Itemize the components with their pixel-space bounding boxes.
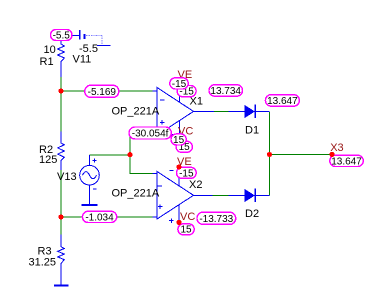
ref label R3 (38, 246, 52, 258)
bias bubble 15 at X2 VC (178, 224, 194, 236)
ref label R1 (40, 56, 54, 68)
bias bubble -15 at X2 VE (177, 167, 197, 179)
value label 125 (39, 154, 57, 166)
svg-text:10: 10 (44, 44, 56, 56)
ref label D1 (245, 125, 259, 137)
value label 10 (44, 44, 56, 56)
svg-text:-1.034: -1.034 (85, 212, 114, 223)
diode D1 (229, 105, 270, 118)
bias bubble 13.647 at D1 (265, 95, 299, 107)
battery V11 (72, 30, 111, 46)
wire X2 output segment (212, 195, 228, 197)
bias bubble -15 lower at X1 VE (177, 86, 196, 98)
resistor R3 (58, 234, 65, 285)
junction node B (58, 214, 63, 219)
part label OP_221A of X1 (112, 106, 160, 118)
svg-text:R1: R1 (40, 56, 54, 68)
svg-text:X2: X2 (189, 179, 202, 191)
svg-text:D2: D2 (245, 208, 259, 220)
resistor R1 (58, 40, 65, 77)
bias bubble 15 lower at X1 VC (176, 141, 192, 153)
wire node D to output X3 (270, 154, 333, 156)
bias bubble -30.054f (129, 127, 171, 140)
svg-text:31.25: 31.25 (29, 257, 57, 269)
wire node B to R3 (60, 217, 62, 234)
power net VE at X2 (177, 156, 192, 168)
ref label D2 (245, 208, 259, 220)
svg-text:13.734: 13.734 (210, 86, 241, 97)
junction X2 VE pin (176, 164, 181, 169)
wire node B to X2 non-inverting input (61, 216, 153, 218)
svg-text:OP_221A: OP_221A (112, 106, 160, 118)
wire node C to X2 inverting input (130, 155, 153, 174)
svg-text:D1: D1 (245, 125, 259, 137)
power net VE at X1 (178, 69, 193, 81)
svg-text:-5.5: -5.5 (53, 31, 71, 42)
svg-text:13.647: 13.647 (331, 156, 362, 167)
bias bubble 13.734 (209, 85, 243, 97)
wire V13 plus to node C (90, 154, 131, 156)
junction node C (127, 152, 132, 157)
bias bubble -15 upper at X1 VE (170, 78, 188, 90)
svg-text:VC: VC (180, 211, 195, 223)
wire R2 to node B (60, 170, 62, 217)
wire D2 cathode up to node D (269, 155, 271, 196)
value label 31.25 (29, 257, 57, 269)
ref label V11 (73, 54, 92, 66)
ref label X1 (190, 96, 203, 108)
bias bubble -5.169 (85, 85, 119, 98)
sine source V13 (80, 155, 100, 205)
ref label X2 (189, 179, 202, 191)
ref label V13 (57, 171, 77, 183)
junction X2 VC pin (176, 220, 181, 225)
junction node A (58, 88, 63, 93)
svg-text:15: 15 (180, 225, 192, 236)
op-amp X1 (153, 81, 215, 136)
svg-text:-30.054f: -30.054f (132, 129, 169, 140)
op-amp X2 (153, 167, 213, 223)
bias bubble 15 upper at X1 VC (171, 134, 186, 146)
ground bar below R3 (54, 285, 69, 287)
diode D2 (229, 189, 270, 202)
resistor R2 (58, 132, 65, 170)
junction node X3 (329, 152, 334, 157)
net label X3 (330, 142, 343, 154)
wire D1 cathode down to node D (269, 112, 271, 154)
svg-text:X1: X1 (190, 96, 203, 108)
svg-text:-15: -15 (179, 168, 194, 179)
wire node C to X1 non-inverting input (129, 132, 131, 156)
svg-text:-13.733: -13.733 (199, 214, 233, 225)
wire node A to R2 rail (60, 77, 62, 132)
wire node A to X1 inverting input (61, 90, 153, 92)
bias bubble 13.647 at X3 (330, 155, 364, 167)
power net VC at X1 (178, 125, 193, 137)
bias bubble -1.034 (82, 211, 116, 223)
ground of V13 (81, 204, 97, 206)
svg-text:125: 125 (39, 154, 57, 166)
power net VC at X2 (180, 211, 195, 223)
junction node D (267, 152, 272, 157)
svg-text:V11: V11 (73, 54, 92, 66)
svg-text:-15: -15 (172, 79, 187, 90)
svg-text:13.647: 13.647 (267, 96, 298, 107)
svg-text:OP_221A: OP_221A (112, 188, 160, 200)
value label -5.5 of V11 (79, 43, 98, 55)
svg-text:-5.169: -5.169 (88, 87, 117, 98)
svg-text:15: 15 (173, 135, 185, 146)
ref label R2 (39, 144, 53, 156)
bias bubble -13.733 (197, 212, 236, 225)
svg-text:V13: V13 (57, 171, 77, 183)
bias bubble -5.5 (51, 30, 73, 42)
wire X1 output segment (214, 111, 229, 113)
part label OP_221A of X2 (112, 188, 160, 200)
